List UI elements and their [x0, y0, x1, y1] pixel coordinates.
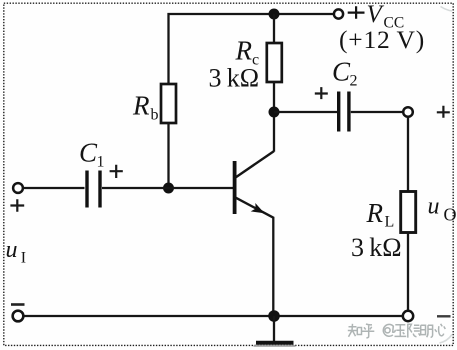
- svg-text:1: 1: [97, 154, 105, 171]
- svg-text:3 kΩ: 3 kΩ: [351, 233, 402, 262]
- node: Vcc junction dot: [269, 9, 280, 20]
- 知: [348, 324, 362, 337]
- resistor Rc: [267, 43, 282, 82]
- terminal output bottom: [403, 311, 413, 321]
- label +Vcc: [348, 1, 404, 32]
- terminal +Vcc: [334, 9, 343, 18]
- node: emitter/ground junction dot: [268, 310, 280, 322]
- wire: output terminal to RL: [407, 117, 409, 192]
- label uO: [428, 194, 457, 225]
- wire: C2 to output terminal: [351, 111, 403, 113]
- capacitor C2: [339, 92, 349, 132]
- svg-text:3 kΩ: 3 kΩ: [209, 64, 260, 93]
- resistor RL: [401, 192, 416, 233]
- @: [383, 324, 395, 336]
- 玉: [395, 325, 407, 337]
- wire: Rb to base node: [167, 123, 169, 188]
- label uI: [6, 237, 27, 267]
- label input minus: [11, 303, 25, 306]
- 乎: [362, 324, 374, 338]
- 明: [421, 325, 433, 337]
- label output plus: [437, 106, 450, 118]
- wire: collector node to C2: [274, 111, 337, 113]
- svg-text:R: R: [235, 36, 253, 66]
- svg-text:R: R: [132, 91, 150, 121]
- label RL 3 kOhm: [351, 233, 402, 262]
- wire: Rc to collector: [273, 82, 275, 152]
- svg-text:b: b: [151, 107, 159, 124]
- terminal input top: [13, 183, 23, 193]
- label input plus: [10, 199, 24, 211]
- terminal output top: [403, 107, 413, 117]
- wire: input to C1: [24, 187, 85, 189]
- label output minus: [437, 315, 451, 317]
- resistor Rb: [161, 84, 176, 123]
- node: collector junction dot: [269, 107, 280, 118]
- label (+12 V): [339, 25, 425, 54]
- node: base junction dot: [163, 183, 174, 194]
- watermark zhihu: [348, 324, 446, 338]
- label C2: [332, 57, 358, 90]
- wire: bottom rail: [23, 315, 403, 317]
- wire: top supply rail: [169, 14, 334, 84]
- svg-text:R: R: [366, 198, 384, 228]
- label Rc 3 kOhm: [209, 64, 260, 93]
- label RL: [366, 198, 395, 231]
- capacitor C1: [87, 171, 100, 208]
- terminal input bottom: [13, 311, 24, 322]
- label Rb: [132, 91, 159, 124]
- svg-text:C: C: [79, 138, 98, 168]
- svg-text:u: u: [6, 237, 18, 263]
- wire: emitter to ground rail: [272, 217, 274, 316]
- label C1: [79, 138, 105, 171]
- svg-text:u: u: [428, 194, 440, 220]
- wire: rail to Rc: [273, 14, 275, 43]
- label Rc: [235, 36, 260, 69]
- 隐: [408, 324, 420, 338]
- ground: [254, 316, 296, 346]
- svg-text:V: V: [367, 1, 385, 28]
- svg-text:2: 2: [350, 73, 358, 90]
- 心: [435, 324, 446, 336]
- svg-text:L: L: [385, 214, 395, 231]
- wire: C1 to base: [102, 187, 233, 189]
- svg-text:(+12 V): (+12 V): [339, 25, 425, 54]
- transistor Q1 (NPN): [233, 151, 274, 218]
- label C2 plus: [315, 87, 328, 99]
- label C1 plus: [110, 165, 123, 178]
- svg-text:O: O: [444, 205, 457, 225]
- wire: RL to bottom terminal: [407, 233, 409, 312]
- svg-text:C: C: [332, 57, 351, 87]
- svg-text:I: I: [21, 250, 26, 267]
